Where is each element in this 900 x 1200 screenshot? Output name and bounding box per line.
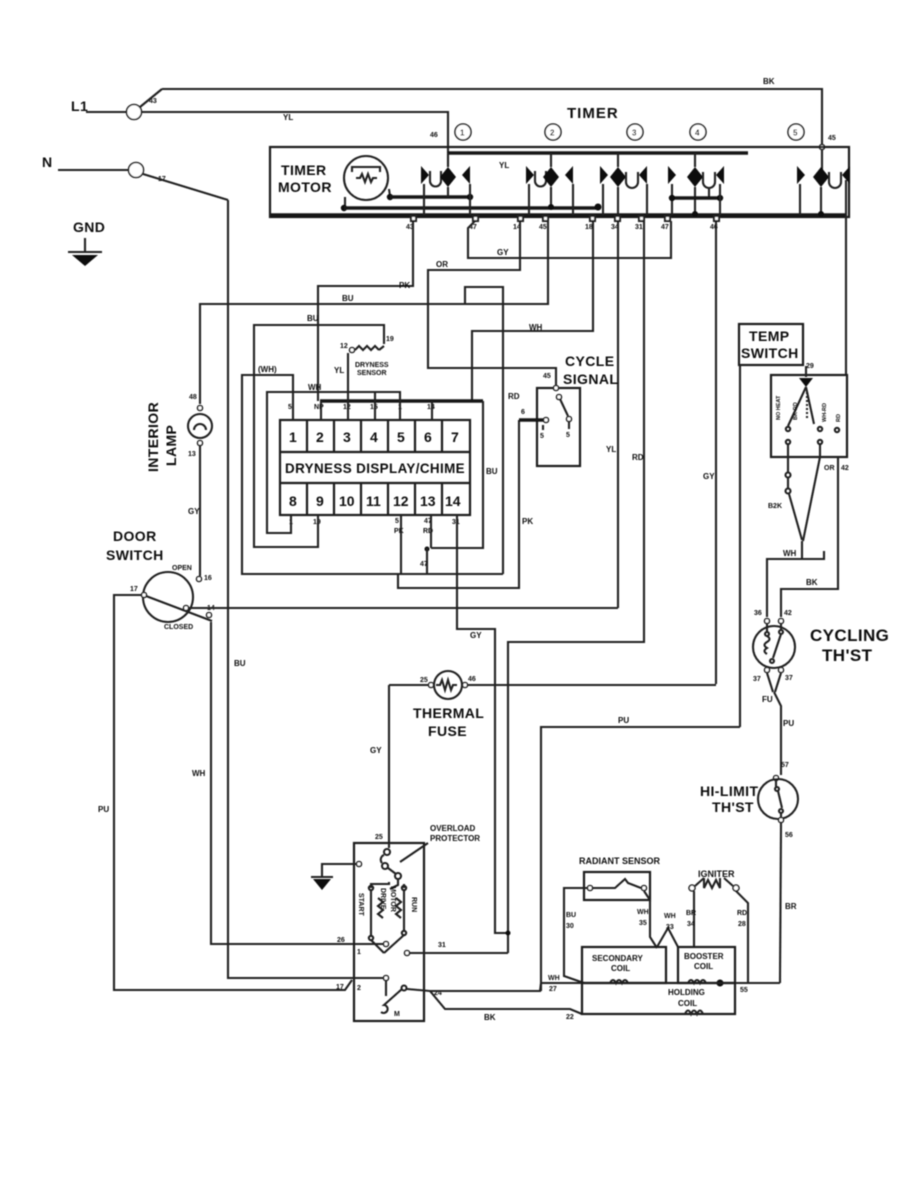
svg-text:1: 1: [289, 429, 297, 445]
display top pin stubs: [293, 410, 432, 420]
svg-text:31: 31: [452, 519, 460, 526]
svg-text:56: 56: [785, 832, 793, 839]
radiant sensor box: [584, 872, 650, 900]
svg-text:COIL: COIL: [694, 962, 713, 971]
svg-text:GND: GND: [73, 219, 105, 235]
svg-text:55: 55: [740, 987, 748, 994]
svg-text:HI-LIMIT: HI-LIMIT: [700, 783, 758, 799]
svg-text:L1: L1: [71, 98, 88, 114]
svg-text:5: 5: [566, 432, 570, 439]
radiant sensor switch: [588, 886, 593, 891]
wire N/BU long vertical to motor pin 2: [228, 200, 352, 978]
svg-text:27: 27: [549, 986, 557, 993]
svg-text:5: 5: [288, 404, 292, 411]
display heavy bus: [320, 399, 483, 402]
svg-text:19: 19: [313, 519, 321, 526]
svg-text:46: 46: [468, 676, 476, 683]
svg-text:17: 17: [130, 586, 138, 593]
wire BK motor to holding coil: [430, 991, 582, 1014]
wire BR hi-limit down: [780, 823, 781, 983]
display cell numbers 1-7: [289, 429, 459, 445]
svg-text:BK-RD: BK-RD: [793, 402, 799, 420]
svg-text:COIL: COIL: [611, 964, 630, 973]
wire BU long timer 45 to interior lamp: [200, 221, 548, 404]
wire WH 35 sensor right: [644, 891, 657, 948]
svg-text:5: 5: [793, 129, 798, 138]
svg-text:WH: WH: [783, 549, 797, 558]
svg-text:47: 47: [420, 561, 428, 568]
svg-text:OR: OR: [824, 465, 835, 472]
svg-text:WH: WH: [308, 383, 322, 392]
svg-text:34: 34: [687, 921, 695, 928]
timer contact 4: [668, 153, 724, 217]
svg-text:13: 13: [420, 493, 436, 509]
svg-text:TEMP: TEMP: [749, 328, 790, 344]
svg-text:12: 12: [343, 404, 351, 411]
svg-text:WH: WH: [548, 975, 560, 982]
door open contact 16: [197, 577, 202, 582]
svg-text:6: 6: [521, 409, 525, 416]
svg-text:BU: BU: [566, 912, 576, 919]
door pivot terminal 17: [142, 593, 147, 598]
display cell numbers 8-14: [289, 493, 461, 509]
wire PU door 17 down: [114, 595, 352, 990]
timer pin ticks bottom: [411, 216, 719, 221]
overload pointer: [400, 843, 428, 862]
svg-text:3: 3: [343, 429, 351, 445]
wire WH inner loop pin1 to pin1: [267, 392, 400, 533]
svg-text:SWITCH: SWITCH: [741, 345, 799, 361]
svg-text:PU: PU: [98, 805, 109, 814]
svg-text:19: 19: [386, 336, 394, 343]
svg-text:YL: YL: [334, 366, 344, 375]
wire timer motor right leg: [389, 189, 390, 196]
motor terminal 31 internal: [405, 951, 410, 956]
svg-text:B2K: B2K: [768, 503, 782, 510]
svg-text:THERMAL: THERMAL: [413, 705, 484, 721]
booster coil L2: [688, 980, 706, 983]
svg-text:TIMER: TIMER: [567, 105, 619, 122]
svg-text:5: 5: [397, 429, 405, 445]
svg-text:PROTECTOR: PROTECTOR: [430, 834, 480, 843]
svg-text:CYCLE: CYCLE: [565, 353, 614, 369]
temp switch B2K selector: [786, 457, 821, 541]
wire pin15 stub: [374, 392, 376, 410]
lamp bottom terminal 13: [198, 441, 203, 446]
secondary coil L1: [610, 980, 628, 983]
svg-text:N: N: [42, 154, 53, 170]
svg-text:BR: BR: [785, 902, 797, 911]
svg-text:BU: BU: [234, 659, 246, 668]
wire BR 34 igniter left: [693, 891, 695, 947]
wire WH temp switch to cycling: [767, 541, 802, 617]
timer contact 3: [600, 153, 647, 215]
svg-text:CLOSED: CLOSED: [164, 624, 193, 631]
wire GY lamp to door switch: [199, 446, 201, 576]
svg-text:DRYNESS DISPLAY/CHIME: DRYNESS DISPLAY/CHIME: [285, 460, 465, 476]
svg-text:11: 11: [366, 493, 381, 509]
svg-text:25: 25: [420, 677, 428, 684]
motor box: [354, 843, 424, 1021]
svg-text:18: 18: [585, 224, 593, 231]
svg-text:WH-RD: WH-RD: [822, 403, 828, 422]
svg-text:START: START: [357, 893, 364, 917]
svg-text:8: 8: [289, 493, 297, 509]
dryness display box: [280, 420, 470, 515]
svg-text:PK: PK: [399, 281, 410, 290]
svg-text:LAMP: LAMP: [163, 425, 179, 466]
wire BK riser from L1: [140, 89, 162, 107]
svg-text:5: 5: [395, 518, 399, 525]
svg-text:4: 4: [370, 429, 378, 445]
wire N lead: [58, 169, 129, 171]
svg-text:RD: RD: [737, 910, 747, 917]
svg-text:14: 14: [445, 493, 461, 509]
svg-text:48: 48: [189, 394, 197, 401]
svg-text:2: 2: [550, 129, 555, 138]
svg-text:SECONDARY: SECONDARY: [592, 954, 643, 963]
svg-text:RD: RD: [632, 453, 644, 462]
wire RD pin47 drop: [430, 515, 432, 548]
svg-text:FUSE: FUSE: [428, 723, 467, 739]
wire PU cycling to hi-limit: [774, 692, 781, 775]
svg-text:RD: RD: [508, 392, 520, 401]
wire YL timer 34 to door switch line: [617, 221, 619, 608]
svg-text:M: M: [394, 1011, 400, 1018]
svg-text:10: 10: [339, 493, 355, 509]
wire RD tap to cycle area: [465, 287, 503, 574]
svg-text:15: 15: [370, 404, 378, 411]
temp switch internals: [786, 387, 839, 457]
thermal fuse F1: [434, 671, 462, 699]
timer bus mid2: [344, 206, 598, 209]
svg-text:5: 5: [540, 433, 544, 440]
chassis ground symbol: [311, 876, 333, 878]
svg-text:31: 31: [635, 224, 643, 231]
svg-text:1: 1: [460, 129, 465, 138]
svg-text:YL: YL: [499, 161, 509, 170]
svg-text:2: 2: [316, 429, 324, 445]
display cell dividers: [307, 420, 442, 515]
svg-text:WH: WH: [529, 323, 543, 332]
svg-text:35: 35: [639, 920, 647, 927]
svg-text:28: 28: [738, 921, 746, 928]
svg-text:6: 6: [424, 429, 432, 445]
svg-text:31: 31: [438, 942, 446, 949]
wire pin14 stub up: [431, 401, 433, 410]
motor terminal 2: [384, 976, 389, 981]
svg-text:TH'ST: TH'ST: [822, 646, 873, 665]
door switch body: [143, 572, 193, 622]
svg-text:42: 42: [784, 610, 792, 617]
svg-text:BU: BU: [486, 467, 498, 476]
svg-text:OPEN: OPEN: [172, 565, 192, 572]
svg-text:33: 33: [666, 924, 674, 931]
svg-text:4: 4: [695, 129, 700, 138]
wire fuse line left: [389, 684, 428, 686]
svg-text:47: 47: [661, 224, 669, 231]
svg-text:29: 29: [806, 363, 814, 370]
wire YL from L1 to timer contact 1: [141, 112, 448, 167]
wire WH 33 link: [657, 928, 678, 947]
cycle signal switch S1: [554, 386, 559, 391]
svg-text:22: 22: [566, 1014, 574, 1021]
timer contact 1: [421, 153, 470, 215]
svg-text:TH'ST: TH'ST: [712, 799, 754, 815]
svg-text:SENSOR: SENSOR: [357, 370, 387, 377]
svg-text:BOOSTER: BOOSTER: [684, 952, 724, 961]
wire PK pin5 drop to cycle signal: [400, 515, 402, 574]
secondary coil box: [582, 947, 666, 983]
coil common line 55: [584, 982, 780, 984]
terminal L1 circle 43: [127, 105, 142, 120]
svg-text:MOTOR: MOTOR: [389, 886, 396, 912]
timer cam circle 2: [545, 124, 561, 140]
wire RD 28 igniter right: [736, 891, 748, 983]
svg-text:RD: RD: [836, 414, 842, 422]
svg-text:57: 57: [781, 762, 789, 769]
wire BK top run to timer contact 5: [162, 89, 822, 180]
wire WH door 14 to motor 26: [211, 622, 384, 944]
svg-text:1: 1: [357, 949, 361, 956]
svg-text:SWITCH: SWITCH: [106, 547, 164, 563]
svg-text:2: 2: [357, 985, 361, 992]
svg-text:17: 17: [336, 984, 344, 991]
wire L1 lead: [86, 111, 127, 113]
svg-text:BK: BK: [484, 1013, 496, 1022]
door blade: [146, 596, 212, 621]
svg-text:46: 46: [430, 132, 438, 139]
timer cam circle 4: [690, 124, 706, 140]
booster coil box: [678, 947, 735, 983]
wire motor 31 out: [410, 952, 508, 954]
svg-text:12: 12: [340, 343, 348, 350]
dryness sensor: [340, 336, 394, 377]
terminal N circle 17: [129, 163, 144, 178]
wire OR timer 14 to cycle signal: [428, 221, 556, 386]
svg-text:OR: OR: [436, 260, 448, 269]
lamp E1: [188, 414, 212, 438]
wire N diagonal: [143, 174, 228, 200]
svg-text:MOTOR: MOTOR: [278, 179, 332, 195]
svg-text:SIGNAL: SIGNAL: [563, 371, 618, 387]
display top pin labels: [288, 404, 435, 411]
svg-text:13: 13: [188, 451, 196, 458]
svg-text:45: 45: [539, 224, 547, 231]
svg-text:12: 12: [393, 493, 409, 509]
svg-text:GY: GY: [370, 746, 382, 755]
svg-text:37: 37: [785, 675, 793, 682]
igniter HE1: [689, 885, 695, 891]
svg-text:DOOR: DOOR: [113, 528, 157, 544]
wire BU 30 sensor left loop: [564, 888, 587, 983]
wire timer motor left leg: [344, 197, 346, 207]
svg-text:PU: PU: [783, 719, 794, 728]
svg-text:BK: BK: [806, 578, 818, 587]
timer cam circle 3: [627, 124, 643, 140]
svg-text:45: 45: [828, 135, 836, 142]
svg-text:INTERIOR: INTERIOR: [145, 402, 161, 472]
wire GY fuse to motor overload: [388, 685, 390, 843]
timer cam circle 1: [455, 124, 471, 140]
svg-text:45: 45: [543, 373, 551, 380]
svg-text:CYCLING: CYCLING: [810, 626, 889, 645]
wire WH to coils line: [430, 983, 584, 991]
svg-text:7: 7: [451, 429, 459, 445]
temp switch box: [771, 375, 847, 457]
svg-text:PU: PU: [618, 716, 629, 725]
svg-text:NO HEAT: NO HEAT: [776, 395, 782, 420]
svg-text:YL: YL: [283, 113, 293, 122]
wire 45 to temp switch: [845, 215, 847, 375]
svg-text:DRYNESS: DRYNESS: [355, 362, 389, 369]
svg-text:WH: WH: [637, 909, 649, 916]
svg-text:25: 25: [375, 834, 383, 841]
holding coil box: [582, 983, 735, 1014]
svg-text:GY: GY: [703, 472, 715, 481]
svg-text:BU: BU: [307, 314, 319, 323]
motor start switch M: [381, 980, 407, 1013]
timer bus mid1: [390, 195, 470, 198]
svg-text:3: 3: [632, 129, 637, 138]
wire PK from timer 43 to display bus: [318, 221, 413, 401]
wire RD timer 31 to motor 31: [508, 221, 644, 953]
wire fuse line right to 46: [468, 684, 716, 686]
svg-text:COIL: COIL: [678, 999, 697, 1008]
wire GY loop timer 47 to 47: [468, 221, 671, 258]
cycling thermostat bottom 37: [765, 668, 770, 673]
svg-text:WH: WH: [664, 913, 676, 920]
holding coil L3: [685, 1011, 703, 1015]
motor start blade: [371, 940, 384, 953]
svg-text:26: 26: [337, 937, 345, 944]
wire YL sensor to pin12: [347, 353, 349, 410]
hi-limit terminal 56: [779, 818, 784, 823]
svg-text:16: 16: [204, 575, 212, 582]
wire door closed to YL: [189, 607, 618, 609]
wire to chassis ground: [322, 864, 356, 877]
svg-text:BU: BU: [342, 294, 354, 303]
svg-text:OVERLOAD: OVERLOAD: [430, 824, 476, 833]
svg-text:(WH): (WH): [258, 365, 277, 374]
svg-text:GY: GY: [188, 507, 200, 516]
cycling thermostat TH1: [753, 626, 795, 668]
svg-text:FU: FU: [762, 695, 773, 704]
svg-text:GY: GY: [470, 631, 482, 640]
wire PU from motor: [541, 727, 740, 991]
timer box: [270, 147, 849, 217]
wire pinNP stub: [320, 401, 322, 410]
wire BU sensor loop pin19: [254, 325, 384, 547]
svg-text:PK: PK: [394, 528, 404, 535]
wire motor 2 internal: [352, 977, 384, 979]
svg-text:42: 42: [841, 465, 849, 472]
wire BU right drop from bus: [431, 401, 483, 548]
svg-text:RADIANT SENSOR: RADIANT SENSOR: [579, 856, 661, 866]
wire GY pin31 drop: [457, 515, 508, 933]
timer motor M1: [344, 156, 388, 200]
svg-text:30: 30: [566, 923, 574, 930]
svg-text:14: 14: [427, 404, 435, 411]
svg-text:36: 36: [754, 610, 762, 617]
svg-text:GY: GY: [497, 248, 509, 257]
timer contact 2: [526, 153, 573, 215]
door closed contact: [184, 606, 189, 611]
wire OR 42 temp switch to cycling: [781, 457, 838, 617]
wire temp label box drop: [739, 365, 741, 727]
timer contact 5: [797, 166, 850, 217]
svg-text:WH: WH: [192, 769, 206, 778]
svg-text:9: 9: [316, 493, 324, 509]
svg-text:PK: PK: [522, 517, 533, 526]
svg-text:BR: BR: [686, 910, 696, 917]
timer bus top: [448, 151, 748, 154]
svg-text:RUN: RUN: [410, 897, 417, 912]
temp switch label box: [739, 324, 803, 365]
timer bus bottom: [271, 213, 846, 216]
timer cam circle 5: [788, 124, 804, 140]
svg-text:BK: BK: [763, 77, 775, 86]
motor ground terminal: [357, 862, 362, 867]
timer pin labels: [406, 224, 718, 231]
svg-text:TIMER: TIMER: [281, 162, 327, 178]
wire motor switch out 24: [407, 989, 430, 991]
cycle signal box: [537, 388, 580, 466]
hi-limit thermostat TH2: [758, 779, 798, 819]
svg-text:HOLDING: HOLDING: [668, 988, 705, 997]
wire 46 timer to thermal fuse: [715, 221, 717, 684]
svg-text:37: 37: [753, 676, 761, 683]
display bottom pin labels: [289, 518, 460, 535]
svg-text:NP: NP: [314, 404, 324, 411]
svg-text:YL: YL: [606, 445, 616, 454]
wire WH timer 18 to display bus: [472, 221, 593, 401]
wire (WH) outer loop: [242, 375, 503, 574]
